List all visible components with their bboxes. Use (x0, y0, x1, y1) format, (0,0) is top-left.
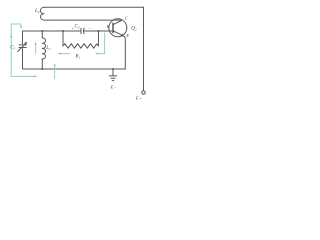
svg-text:L1: L1 (45, 46, 51, 51)
node B+ terminal (142, 91, 145, 94)
arrowhead down on left loop (10, 36, 12, 39)
transistor Q2 base bar (112, 23, 114, 32)
inductor L1 (41, 31, 43, 38)
ground stub (112, 69, 114, 75)
resistor R1 loop right leg (98, 31, 100, 46)
wire: teal arrow beside L1 (35, 43, 37, 53)
wire: bottom rail (23, 68, 126, 70)
capacitor C3 plates (80, 28, 82, 34)
svg-text:C1: C1 (10, 46, 15, 51)
junction dot (62, 30, 64, 32)
svg-text:E −: E − (110, 85, 118, 90)
wire: teal arrow at bottom rail (54, 65, 56, 79)
capacitor C1 variable arrowhead (24, 42, 27, 45)
teal current-path arrows (11, 24, 104, 79)
junction dot (112, 68, 114, 70)
wire: teal left loop (11, 24, 35, 76)
junction dot (41, 68, 43, 70)
arrowhead left (58, 52, 61, 54)
transistor Q2 emitter lead (113, 31, 125, 69)
svg-text:B: B (107, 24, 110, 29)
wire: right supply lead (143, 7, 145, 90)
inductor L2 (40, 7, 44, 20)
wire: teal top tick (20, 24, 22, 26)
arrowhead up (53, 63, 55, 66)
ground bars (109, 75, 116, 77)
wire: L2 hairpin top line (44, 6, 144, 8)
arrowhead left (95, 52, 98, 54)
wire: teal feedback riser (97, 33, 105, 54)
svg-text:R1: R1 (74, 54, 80, 59)
resistor R1 (63, 44, 99, 49)
resistor R1 loop left leg (62, 31, 64, 46)
transistor Q2 circle (109, 19, 127, 37)
wire: teal arrow under R1 (59, 53, 70, 55)
wire: left branch (C1 leg) (22, 31, 24, 44)
wire: L2 hairpin bottom line (44, 19, 121, 21)
svg-text:C3: C3 (75, 25, 80, 30)
arrowhead down (20, 26, 22, 29)
svg-text:E: E (125, 33, 129, 38)
wire: main base wire (23, 30, 82, 32)
arrowhead right (35, 75, 38, 77)
arrowhead up (34, 42, 36, 45)
svg-text:−: − (88, 25, 91, 30)
junction dot (41, 30, 43, 32)
transistor Q2 collector lead (113, 21, 121, 25)
junction dot (98, 30, 100, 32)
svg-text:E +: E + (135, 96, 143, 101)
emitter arrowhead (121, 34, 125, 37)
svg-text:L2: L2 (34, 9, 40, 14)
svg-text:C: C (125, 15, 128, 20)
capacitor C1 (variable) (19, 44, 26, 46)
svg-text:Q2: Q2 (131, 27, 137, 32)
